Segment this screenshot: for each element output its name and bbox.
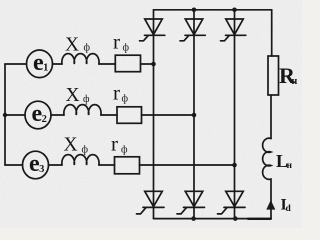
wire left neutral bus [4, 64, 6, 165]
svg-text:ф: ф [84, 42, 91, 53]
resistor rf2 [117, 107, 142, 124]
svg-text:X: X [65, 34, 79, 55]
wire e3 to Xf3 [49, 164, 63, 166]
wire Xf1 to rf1 [99, 63, 115, 65]
wire neutral to e3 [5, 164, 23, 166]
wire Ln to bottom bus [270, 179, 272, 219]
wire rf3 to leg3 [140, 164, 235, 166]
svg-text:r: r [113, 30, 120, 54]
source e2 [25, 101, 51, 129]
resistor rf3 [115, 157, 140, 174]
svg-text:X: X [66, 85, 80, 106]
svg-text:н: н [287, 161, 293, 171]
node phase2 junction [192, 113, 197, 118]
node bottom bus leg3 [233, 216, 238, 221]
thyristor VS6 bottom leg2 [177, 191, 205, 214]
thyristor VS3 top leg2 [180, 19, 205, 41]
wire top positive bus [154, 9, 272, 11]
wire leg3 vertical [234, 10, 236, 219]
inductor Xf3 [62, 155, 99, 165]
wire rf2 to leg2 [142, 114, 195, 116]
wire top bus to Rn [271, 10, 273, 56]
node phase1 junction [151, 62, 156, 67]
arrow Id [266, 200, 275, 210]
svg-text:ф: ф [123, 42, 130, 53]
node phase3 junction [232, 163, 237, 168]
resistor rf1 [115, 55, 140, 71]
svg-text:ф: ф [121, 144, 128, 155]
svg-text:r: r [111, 131, 118, 155]
source e3 [23, 151, 49, 179]
svg-text:ф: ф [82, 144, 89, 155]
node bottom bus leg2 [191, 216, 196, 221]
wire leg2 vertical [193, 10, 195, 219]
wire Xf3 to rf3 [99, 164, 115, 166]
svg-text:X: X [64, 134, 78, 155]
thyristor VS4 bottom leg1 [137, 191, 165, 214]
wire Xf2 to rf2 [101, 114, 117, 116]
wire bottom negative bus [154, 218, 271, 220]
thyristor VS2 bottom leg3 [218, 191, 246, 214]
wire Rn to Ln [270, 95, 272, 139]
thyristor VS1 top leg1 [140, 19, 165, 41]
wire e2 to Xf2 [51, 114, 64, 116]
wire neutral to e2 [5, 114, 25, 116]
inductor Ln [263, 138, 271, 179]
resistor Rn [268, 56, 279, 95]
svg-text:н: н [292, 76, 298, 87]
wire e1 to Xf1 [53, 63, 63, 65]
node neutral junction e2 [3, 113, 7, 117]
thyristor VS5 top leg3 [221, 19, 246, 41]
inductor Xf1 [62, 54, 99, 64]
node top bus leg2 [192, 8, 197, 13]
wire neutral to e1 [5, 63, 27, 65]
wire leg1 vertical [153, 10, 155, 219]
node top bus leg3 [232, 8, 237, 13]
wire rf1 to leg1 [141, 63, 154, 65]
source e1 [27, 50, 53, 78]
svg-text:ф: ф [122, 94, 129, 105]
svg-text:ф: ф [83, 94, 90, 105]
svg-text:r: r [113, 80, 120, 104]
svg-text:d: d [286, 204, 292, 214]
inductor Xf2 [64, 105, 101, 115]
